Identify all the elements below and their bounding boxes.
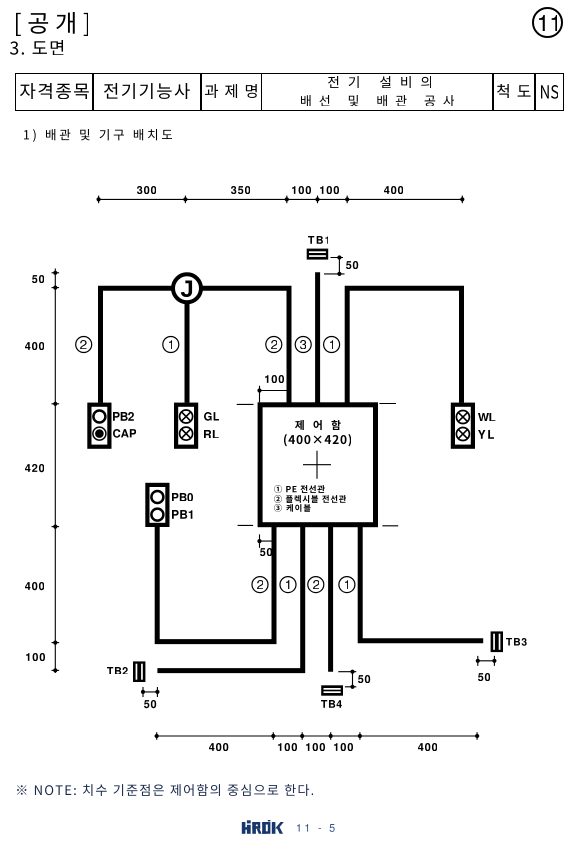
- wire: PB0/PB1 loop to control box bottom: [157, 527, 274, 642]
- table divider: [534, 73, 535, 111]
- dim 100 at control box top left: [260, 386, 287, 403]
- legend line1 PE 전선관: [274, 485, 325, 493]
- wire label 2: [252, 577, 268, 593]
- lamp WL: [456, 411, 469, 424]
- table divider: [261, 73, 262, 111]
- cell title line2 배선 및 배관 공사: [301, 95, 454, 107]
- table divider: [92, 73, 93, 111]
- label TB1: [308, 236, 329, 244]
- label PB0: [172, 493, 193, 502]
- label TB3: [506, 638, 527, 646]
- wire: TB2 run to control box bottom: [157, 527, 302, 671]
- dim 350: [231, 186, 250, 194]
- wire label 2: [266, 337, 282, 353]
- lamp box WL/YL: [453, 405, 473, 447]
- dim 420: [25, 464, 44, 472]
- wire: cable down to TB4: [328, 527, 333, 672]
- dim 50: [32, 275, 44, 283]
- wire label 2: [308, 577, 324, 593]
- cell NS: [541, 85, 559, 99]
- lamp box GL/RL: [176, 405, 196, 447]
- dim 100: [278, 743, 297, 751]
- wire: TB1 cable down to control box: [315, 272, 320, 402]
- page number circle 11: [532, 7, 563, 38]
- label RL: [204, 430, 219, 439]
- dim 100: [320, 186, 339, 194]
- lamp GL: [180, 410, 193, 423]
- cell 자격종목: [20, 83, 89, 99]
- dim 100: [292, 186, 311, 194]
- bottom dim tick: [272, 732, 274, 740]
- left dim tick: [52, 272, 60, 274]
- dim 400: [384, 186, 403, 194]
- note: [17, 784, 313, 796]
- top dim tick: [461, 196, 463, 204]
- wire label 1: [324, 337, 340, 353]
- push button PB0: [151, 491, 163, 503]
- terminal block TB2: [133, 661, 145, 682]
- left dimension line: [54, 269, 56, 674]
- top dim tick: [317, 196, 319, 204]
- wire: top-left run J to PB2 and control box: [101, 288, 290, 402]
- dim 400: [418, 743, 437, 751]
- dim 50 at TB2: [143, 687, 157, 697]
- terminal block TB1: [307, 249, 329, 260]
- terminal block TB3: [491, 631, 503, 652]
- wire label 2: [76, 337, 92, 353]
- bottom dim tick: [476, 732, 478, 740]
- table divider: [200, 73, 201, 111]
- cell title line1 전기 설비의: [328, 76, 431, 88]
- text (400x420): [284, 434, 351, 446]
- wire: top-right run control box to WL/YL: [347, 288, 461, 402]
- table frame: [15, 73, 564, 111]
- label TB2: [107, 667, 128, 675]
- control box centerline dashes: [237, 404, 399, 526]
- label WL: [478, 413, 495, 422]
- push button PB1: [151, 509, 163, 521]
- table divider: [492, 73, 493, 111]
- dim 50 at control box bottom left: [260, 534, 273, 548]
- subtitle 1) 배관 및 기구 배치도: [24, 129, 172, 142]
- lamp YL: [456, 428, 469, 441]
- wire label 1: [280, 577, 296, 593]
- label PB1: [172, 510, 192, 519]
- legend line3 케이블: [274, 504, 311, 512]
- bottom dim tick: [359, 732, 361, 740]
- lamp RL: [180, 427, 193, 440]
- dim 50 at TB1: [324, 258, 345, 274]
- left dim tick: [52, 642, 60, 644]
- push button box PB0/PB1: [147, 485, 167, 525]
- HRDK logo: [238, 818, 288, 838]
- wire label 1: [163, 337, 179, 353]
- dim 100: [334, 743, 353, 751]
- selector CAP: [93, 427, 106, 440]
- heading 3. 도면: [10, 40, 63, 56]
- push button box PB2/CAP: [89, 405, 109, 447]
- text 제 어 함: [295, 420, 341, 430]
- control box crosshair: [303, 451, 331, 479]
- wire: J down to GL/RL box: [185, 288, 190, 402]
- dim 100: [26, 653, 45, 661]
- bottom dimension line: [155, 735, 480, 737]
- page code 11 - 5: [297, 824, 335, 832]
- top dimension line: [97, 198, 465, 200]
- top dim tick: [184, 196, 186, 204]
- legend line2 플렉시블 전선관: [274, 495, 346, 503]
- dim 50 at TB3: [478, 656, 495, 666]
- top dim tick: [286, 196, 288, 204]
- bottom dim tick: [301, 732, 303, 740]
- left dim tick: [52, 403, 60, 405]
- left dim tick: [52, 287, 60, 289]
- dim 400: [25, 582, 44, 590]
- control box 제어함: [260, 405, 375, 525]
- cell 과제명: [205, 84, 257, 98]
- dim 300: [137, 186, 156, 194]
- bottom dim tick: [330, 732, 332, 740]
- terminal block TB4: [321, 685, 343, 695]
- title [공개]: [16, 12, 89, 36]
- junction box J: [173, 274, 201, 302]
- top dim tick: [98, 196, 100, 204]
- label GL: [204, 412, 219, 421]
- wire: control box bottom to TB3: [360, 527, 483, 641]
- left dim tick: [52, 669, 60, 671]
- cell 전기기능사: [104, 83, 190, 99]
- wire label 3: [295, 337, 311, 353]
- dim 400: [25, 342, 44, 350]
- label CAP: [113, 429, 136, 438]
- push button PB2: [93, 411, 105, 423]
- cell 척도: [497, 84, 531, 98]
- left dim tick: [52, 526, 60, 528]
- dim 100: [306, 743, 325, 751]
- label TB4: [321, 700, 342, 708]
- label YL: [478, 430, 494, 439]
- dim 50 at TB4: [338, 672, 356, 687]
- dim 400: [209, 743, 228, 751]
- label PB2: [113, 412, 134, 421]
- bottom dim tick: [156, 732, 158, 740]
- top dim tick: [346, 196, 348, 204]
- wire label 1: [339, 577, 355, 593]
